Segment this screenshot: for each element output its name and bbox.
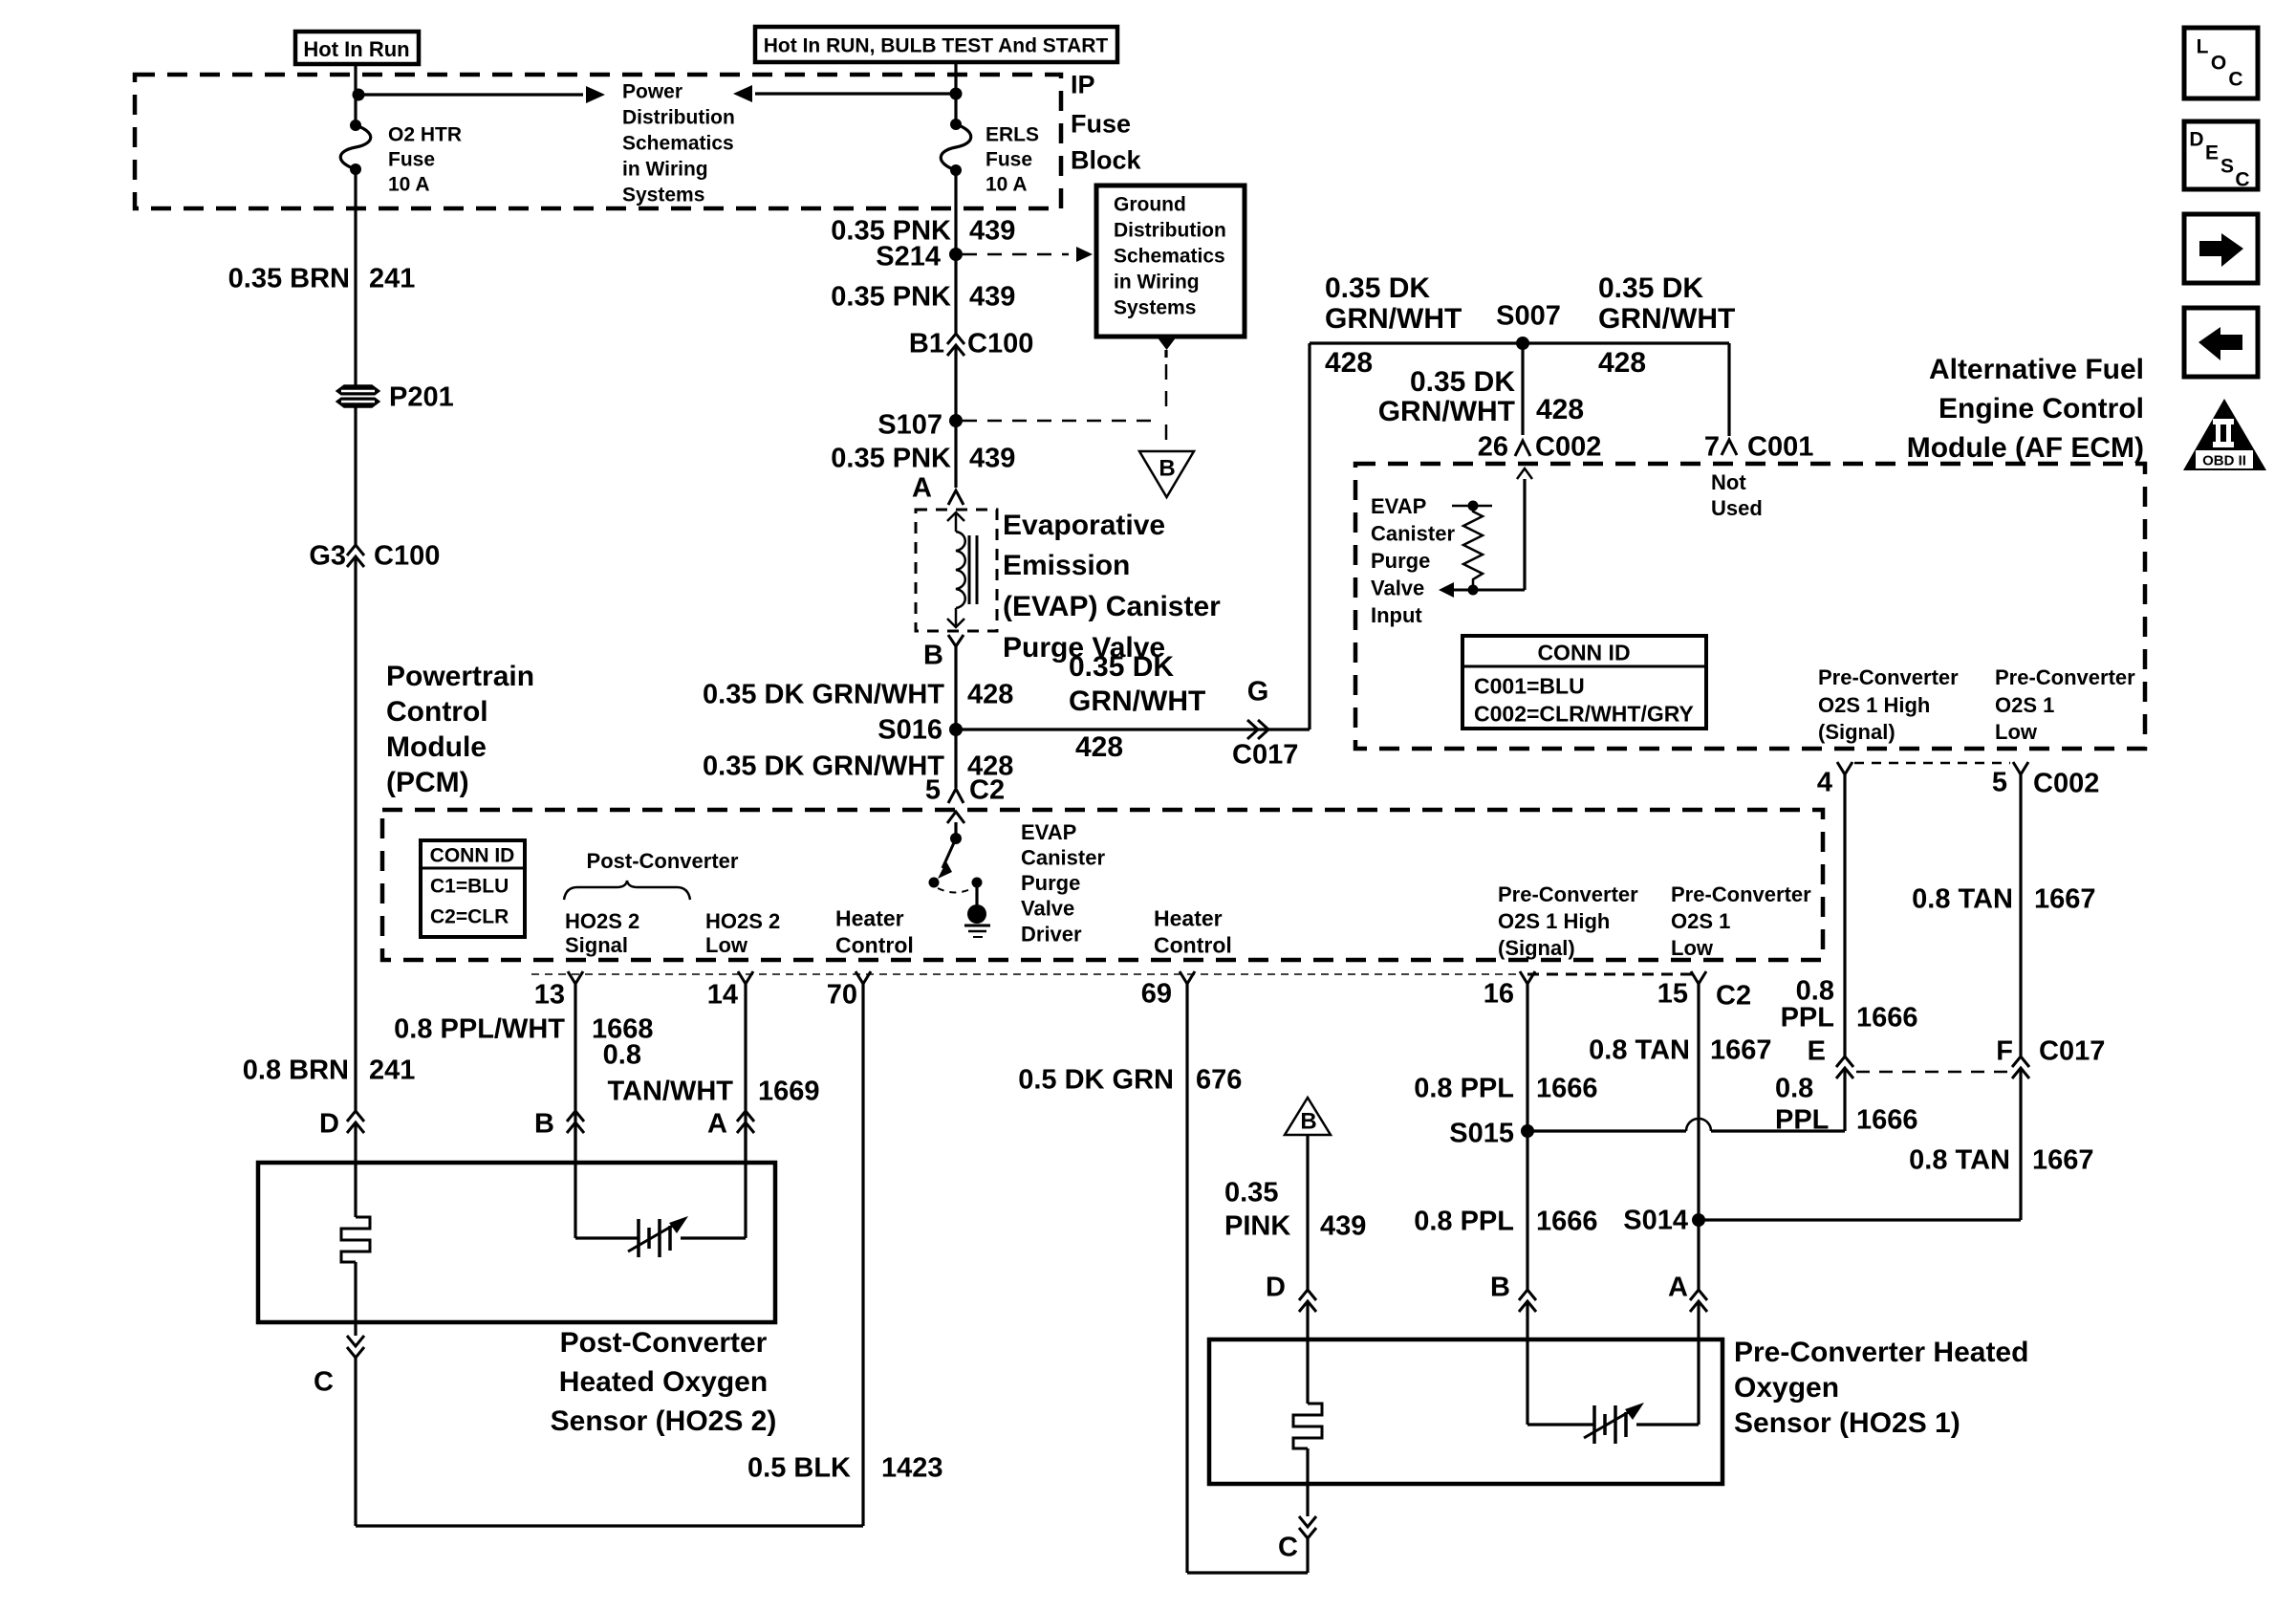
svg-text:7: 7 (1704, 431, 1720, 462)
inline connector chevrons on S016 wire (1247, 720, 1258, 739)
box Ground Distribution Schematics in Wiring Systems (1096, 185, 1245, 337)
svg-text:in Wiring: in Wiring (1114, 272, 1200, 294)
wire pin 15 to HO2S1 A (1697, 984, 1700, 1290)
svg-text:(Signal): (Signal) (1498, 936, 1575, 960)
svg-text:HO2S 2: HO2S 2 (565, 909, 639, 933)
svg-text:10 A: 10 A (388, 174, 430, 196)
svg-text:0.35 DK: 0.35 DK (1069, 651, 1174, 683)
svg-text:Systems: Systems (1114, 297, 1196, 319)
connector C2 face thin dashed line (531, 973, 1522, 975)
ground flag triangle B (1139, 451, 1194, 497)
wire HO2S1 C to pin 69 loop (1306, 1538, 1309, 1573)
svg-text:S: S (2220, 156, 2234, 178)
svg-text:O2S 1 High: O2S 1 High (1498, 909, 1610, 933)
svg-text:GRN/WHT: GRN/WHT (1598, 303, 1735, 335)
svg-text:0.8 PPL/WHT: 0.8 PPL/WHT (394, 1013, 565, 1044)
power label box Hot In RUN BULB TEST And START (755, 27, 1117, 62)
svg-text:S107: S107 (877, 409, 942, 440)
svg-text:Canister: Canister (1371, 521, 1455, 545)
svg-text:E: E (2205, 142, 2219, 164)
icon back arrow box (2184, 308, 2258, 377)
icon LOC box (2184, 28, 2258, 98)
svg-text:10 A: 10 A (986, 174, 1028, 196)
connector G3 C100 pass-through (347, 545, 364, 555)
svg-text:Hot In RUN, BULB TEST And STAR: Hot In RUN, BULB TEST And START (764, 35, 1109, 57)
svg-text:C: C (2228, 69, 2242, 91)
svg-text:0.35 DK GRN/WHT: 0.35 DK GRN/WHT (703, 679, 944, 709)
svg-text:O2S 1: O2S 1 (1671, 909, 1730, 933)
svg-text:C2: C2 (969, 774, 1005, 805)
svg-text:O2S 1 High: O2S 1 High (1818, 693, 1930, 717)
svg-text:O: O (2211, 53, 2226, 75)
svg-text:Pre-Converter Heated: Pre-Converter Heated (1734, 1337, 2028, 1368)
svg-text:0.35 DK GRN/WHT: 0.35 DK GRN/WHT (703, 751, 944, 781)
fuse O2 HTR 10A (350, 120, 361, 131)
svg-text:Post-Converter: Post-Converter (560, 1327, 768, 1359)
svg-text:D: D (319, 1108, 339, 1139)
svg-text:C: C (314, 1366, 334, 1397)
svg-text:5: 5 (1992, 767, 2007, 797)
svg-text:0.35 DK: 0.35 DK (1410, 366, 1515, 398)
icon forward arrow box (2184, 214, 2258, 283)
svg-text:1667: 1667 (1710, 1034, 1772, 1065)
splice S214 (949, 248, 963, 261)
svg-text:Sensor (HO2S 1): Sensor (HO2S 1) (1734, 1407, 1960, 1439)
svg-text:Purge: Purge (1021, 871, 1080, 895)
svg-text:G: G (1247, 676, 1269, 707)
svg-text:1666: 1666 (1536, 1073, 1598, 1103)
svg-text:13: 13 (534, 979, 565, 1010)
svg-text:241: 241 (369, 1055, 415, 1085)
svg-text:Fuse: Fuse (986, 149, 1032, 171)
heater element HO2S1 (1306, 1339, 1309, 1404)
svg-text:Oxygen: Oxygen (1734, 1372, 1839, 1404)
svg-text:C2: C2 (1716, 980, 1751, 1011)
box CONN ID PCM (421, 840, 525, 937)
wire 0.35 BRN 241 upper (354, 169, 357, 386)
svg-text:B: B (1490, 1272, 1510, 1302)
svg-text:C002: C002 (2033, 768, 2099, 798)
svg-text:0.8 PPL: 0.8 PPL (1414, 1073, 1514, 1103)
svg-text:0.5 DK GRN: 0.5 DK GRN (1018, 1064, 1174, 1095)
svg-text:(EVAP) Canister: (EVAP) Canister (1003, 591, 1221, 622)
svg-text:GRN/WHT: GRN/WHT (1378, 396, 1515, 427)
svg-text:439: 439 (969, 215, 1015, 246)
pin 4 C002 (1837, 762, 1852, 774)
svg-text:Signal: Signal (565, 933, 628, 957)
wire O2 HTR feed from Hot In Run (354, 64, 357, 125)
svg-text:14: 14 (707, 979, 738, 1010)
svg-text:C2=CLR: C2=CLR (430, 906, 509, 928)
wire BRN to C100 (354, 407, 357, 545)
pin A HO2S1 chevrons (1690, 1290, 1707, 1300)
wire pin 16 to HO2S1 B (1526, 984, 1528, 1290)
pin C HO2S2 chevrons (347, 1336, 364, 1346)
svg-text:0.8: 0.8 (1775, 1073, 1813, 1103)
svg-text:Pre-Converter: Pre-Converter (1498, 882, 1638, 906)
svg-text:B1: B1 (909, 328, 944, 359)
svg-text:1666: 1666 (1856, 1104, 1918, 1135)
svg-text:439: 439 (1320, 1210, 1366, 1241)
svg-text:0.8 PPL: 0.8 PPL (1414, 1206, 1514, 1236)
icon OBD II triangle (2183, 399, 2266, 470)
svg-text:439: 439 (969, 443, 1015, 473)
arrow up to pin 26 inside AF ECM (1523, 479, 1526, 590)
svg-text:B: B (1159, 456, 1175, 482)
splice S007 (1516, 337, 1529, 350)
svg-text:L: L (2197, 36, 2209, 58)
svg-text:Pre-Converter: Pre-Converter (1818, 665, 1959, 689)
pin 5 C002 (2013, 762, 2028, 774)
svg-text:Control: Control (1154, 932, 1232, 957)
svg-text:0.8: 0.8 (603, 1039, 641, 1070)
svg-text:PPL: PPL (1781, 1002, 1834, 1033)
svg-text:G3: G3 (309, 540, 346, 571)
heater element HO2S2 (354, 1163, 357, 1217)
node junction on O2 HTR feed (353, 89, 365, 101)
svg-text:Input: Input (1371, 603, 1422, 627)
svg-text:EVAP: EVAP (1371, 494, 1426, 518)
svg-text:HO2S 2: HO2S 2 (705, 909, 780, 933)
pin 14 C2 (738, 971, 753, 984)
svg-text:S214: S214 (876, 241, 941, 272)
pin 15 C2 (1691, 971, 1706, 984)
svg-text:Low: Low (705, 933, 748, 957)
svg-text:1666: 1666 (1536, 1206, 1598, 1236)
variable resistor HO2S2 (574, 1163, 576, 1238)
svg-text:0.35 PNK: 0.35 PNK (831, 443, 951, 473)
wire S016 to C017 G (956, 728, 1310, 730)
svg-text:Pre-Converter: Pre-Converter (1995, 665, 2135, 689)
wire pin 69 heater control (1185, 984, 1188, 1573)
svg-text:0.8 BRN: 0.8 BRN (243, 1055, 349, 1085)
variable resistor HO2S1 (1526, 1339, 1528, 1425)
svg-text:D: D (2189, 129, 2203, 151)
svg-text:16: 16 (1484, 978, 1514, 1009)
svg-text:Pre-Converter: Pre-Converter (1671, 882, 1811, 906)
sensor HO2S1 box (1209, 1339, 1722, 1484)
power label box Hot In Run (295, 32, 419, 64)
svg-text:C: C (2235, 169, 2249, 191)
splice S016 (949, 723, 963, 736)
pin B HO2S1 chevrons (1519, 1290, 1536, 1300)
svg-text:GRN/WHT: GRN/WHT (1069, 686, 1205, 717)
splice S014 (1692, 1213, 1705, 1227)
svg-text:Systems: Systems (622, 185, 704, 207)
svg-text:Distribution: Distribution (622, 107, 735, 129)
svg-text:0.35: 0.35 (1224, 1177, 1278, 1208)
svg-text:B: B (534, 1108, 554, 1139)
svg-text:15: 15 (1657, 978, 1688, 1009)
dashed wire to B ground flag (1165, 364, 1168, 418)
svg-text:676: 676 (1196, 1064, 1242, 1095)
svg-text:C: C (1278, 1532, 1298, 1562)
wire B flag to HO2S1 D pin (1306, 1135, 1309, 1290)
svg-text:A: A (707, 1108, 727, 1139)
IP fuse block dashed box (135, 75, 1061, 208)
svg-text:Driver: Driver (1021, 922, 1082, 946)
svg-text:5: 5 (925, 774, 941, 805)
pin 26 C002 AF ECM (1515, 441, 1530, 456)
svg-text:1667: 1667 (2034, 883, 2096, 914)
svg-text:C001: C001 (1747, 431, 1813, 462)
wire pin 13 HO2S2 signal (574, 984, 576, 1163)
svg-text:S007: S007 (1496, 300, 1561, 331)
pin 5 C2 PCM (948, 789, 964, 803)
svg-text:PINK: PINK (1224, 1210, 1290, 1241)
wire pin 4 to E C017 (1843, 774, 1846, 1056)
EVAP valve coil symbol (955, 512, 958, 532)
svg-text:EVAP: EVAP (1021, 820, 1076, 844)
node junction on ERLS feed (950, 88, 963, 100)
svg-text:0.8 TAN: 0.8 TAN (1912, 883, 2013, 914)
wire purge valve input with arrow (1454, 589, 1525, 592)
pin 70 C2 (856, 971, 871, 984)
svg-text:Powertrain: Powertrain (386, 661, 534, 692)
wire HO2S2 C to pin 70 ground loop (354, 1358, 357, 1526)
svg-text:Distribution: Distribution (1114, 220, 1226, 242)
dashed connector face C017 E to F (1856, 1071, 2009, 1074)
svg-text:Hot In Run: Hot In Run (303, 37, 409, 61)
ground symbol purge valve driver (975, 882, 978, 906)
pin A HO2S2 chevrons (737, 1111, 754, 1121)
svg-text:C100: C100 (967, 328, 1033, 359)
wire arrow to Power Distribution Schematics left (755, 92, 956, 95)
svg-text:Power: Power (622, 81, 682, 103)
wire down to pin 7 C001 (1727, 343, 1730, 436)
svg-text:Valve: Valve (1371, 576, 1424, 599)
svg-text:Control: Control (835, 932, 914, 957)
svg-text:1669: 1669 (758, 1076, 820, 1106)
svg-text:Fuse: Fuse (388, 149, 435, 171)
svg-text:26: 26 (1478, 431, 1508, 462)
svg-text:Block: Block (1071, 146, 1142, 175)
wire ERLS feed from Hot In RUN header (954, 62, 957, 124)
svg-text:0.35 DK: 0.35 DK (1598, 272, 1703, 304)
wire pin 5 to F C017 to S014 (2019, 774, 2022, 1056)
svg-text:Purge: Purge (1371, 549, 1430, 573)
wire pin 14 HO2S2 low (744, 984, 747, 1163)
svg-text:OBD II: OBD II (2202, 452, 2246, 468)
svg-text:O2 HTR: O2 HTR (388, 124, 462, 146)
svg-text:C017: C017 (1232, 739, 1298, 770)
wire vertical up to AF ECM feed (1308, 343, 1310, 729)
pin D HO2S2 chevrons (347, 1111, 364, 1121)
EVAP canister purge valve dashed outline (916, 510, 997, 631)
svg-text:Heater: Heater (1154, 905, 1223, 930)
sensor HO2S2 box (258, 1163, 775, 1322)
svg-text:Schematics: Schematics (622, 133, 734, 155)
connector B1 C100 pass-through (947, 334, 964, 344)
svg-text:C001=BLU: C001=BLU (1474, 673, 1585, 698)
EVAP canister purge valve driver switch inside PCM (954, 822, 957, 838)
svg-text:428: 428 (1598, 347, 1646, 379)
svg-text:1666: 1666 (1856, 1002, 1918, 1033)
dashed wire S214 to Ground Distribution (963, 253, 1069, 256)
svg-text:C002=CLR/WHT/GRY: C002=CLR/WHT/GRY (1474, 701, 1694, 726)
dashed wire S107 to ground flag B (963, 420, 1159, 423)
svg-text:C100: C100 (374, 540, 440, 571)
svg-text:Heater: Heater (835, 905, 904, 930)
svg-text:Heated Oxygen: Heated Oxygen (559, 1366, 768, 1398)
module PCM dashed box (382, 810, 1823, 960)
svg-text:D: D (1266, 1272, 1286, 1302)
svg-text:(Signal): (Signal) (1818, 720, 1895, 744)
svg-text:Canister: Canister (1021, 846, 1105, 870)
pin C HO2S1 chevrons (1299, 1516, 1316, 1527)
svg-text:B: B (923, 640, 943, 670)
svg-text:Not: Not (1711, 470, 1746, 494)
svg-text:Alternative Fuel: Alternative Fuel (1929, 354, 2144, 385)
wire 0.8 BRN 241 lower (354, 556, 357, 1111)
svg-text:1423: 1423 (881, 1452, 943, 1483)
svg-text:0.35 BRN: 0.35 BRN (228, 263, 350, 294)
svg-text:1667: 1667 (2032, 1144, 2094, 1175)
svg-text:O2S 1: O2S 1 (1995, 693, 2054, 717)
wire arrow to Power Distribution Schematics (358, 93, 583, 96)
wire S007 down to pin 26 C002 (1521, 343, 1524, 435)
svg-text:439: 439 (969, 281, 1015, 312)
svg-text:241: 241 (369, 263, 415, 294)
svg-text:428: 428 (1075, 731, 1123, 763)
wire S015 to E with hop over pin15 wire (1527, 1129, 1686, 1132)
wire 0.35 PNK 439 S214 to B1 C100 (954, 254, 957, 334)
svg-text:Evaporative: Evaporative (1003, 510, 1165, 541)
splice S015 (1521, 1124, 1534, 1138)
pin 7 C001 AF ECM not used (1722, 440, 1737, 455)
connector F C017 chevrons (2012, 1056, 2029, 1067)
svg-text:Sensor (HO2S 2): Sensor (HO2S 2) (551, 1405, 777, 1437)
svg-text:C017: C017 (2039, 1035, 2105, 1066)
svg-text:428: 428 (1325, 347, 1373, 379)
pin B EVAP purge valve (948, 635, 964, 646)
svg-text:CONN ID: CONN ID (430, 845, 515, 867)
svg-text:B: B (1300, 1109, 1316, 1135)
svg-text:ERLS: ERLS (986, 124, 1039, 146)
pin D HO2S1 chevrons (1299, 1290, 1316, 1300)
connector P201 grommet (336, 385, 379, 397)
svg-text:0.8 TAN: 0.8 TAN (1909, 1144, 2010, 1175)
svg-text:F: F (1996, 1035, 2013, 1066)
resistor EVAP purge valve input (1452, 505, 1492, 508)
svg-text:CONN ID: CONN ID (1537, 640, 1630, 664)
svg-text:Used: Used (1711, 496, 1763, 520)
svg-text:Module: Module (386, 731, 487, 763)
connector C002 pins 4 and 5 dashed face (1854, 762, 2010, 765)
svg-text:A: A (912, 472, 932, 503)
wire 0.35 DK GRN/WHT 428 valve to S016 (954, 646, 957, 788)
svg-text:C1=BLU: C1=BLU (430, 876, 509, 898)
pin B HO2S2 chevrons (567, 1111, 584, 1121)
svg-text:in Wiring: in Wiring (622, 159, 708, 181)
module AF ECM dashed box (1355, 464, 2145, 749)
ground flag triangle B at HO2S1 (1285, 1098, 1331, 1135)
svg-text:Valve: Valve (1021, 897, 1074, 921)
svg-text:TAN/WHT: TAN/WHT (607, 1076, 733, 1106)
svg-text:428: 428 (967, 679, 1013, 709)
wire S014 to F (1699, 1218, 2021, 1221)
wire ERLS 0.35 PNK 439 to S214 (954, 170, 957, 254)
svg-text:Engine Control: Engine Control (1939, 393, 2144, 425)
svg-text:Emission: Emission (1003, 550, 1130, 581)
svg-text:4: 4 (1817, 767, 1832, 797)
connector E C017 chevrons (1836, 1056, 1853, 1067)
icon DESC box (2184, 121, 2258, 189)
svg-text:0.5 BLK: 0.5 BLK (747, 1452, 851, 1483)
svg-text:0.35 DK: 0.35 DK (1325, 272, 1430, 304)
fuse ERLS 10A (950, 119, 962, 130)
svg-text:C002: C002 (1535, 431, 1601, 462)
svg-text:428: 428 (1536, 394, 1584, 425)
splice S107 (949, 414, 963, 427)
svg-text:P201: P201 (389, 381, 454, 412)
ground ref triangle below box (1157, 337, 1177, 350)
svg-text:Low: Low (1995, 720, 2038, 744)
svg-text:Module (AF ECM): Module (AF ECM) (1907, 432, 2144, 464)
svg-text:69: 69 (1141, 978, 1172, 1009)
svg-text:Ground: Ground (1114, 194, 1186, 216)
pin 16 C2 (1520, 971, 1535, 984)
svg-text:Fuse: Fuse (1071, 110, 1131, 139)
svg-text:0.35 PNK: 0.35 PNK (831, 281, 951, 312)
svg-text:S015: S015 (1449, 1118, 1514, 1148)
svg-text:0.8 TAN: 0.8 TAN (1589, 1034, 1690, 1065)
svg-text:Post-Converter: Post-Converter (587, 849, 739, 873)
pin 13 C2 (568, 971, 583, 984)
svg-text:S016: S016 (877, 714, 942, 745)
svg-text:S014: S014 (1623, 1205, 1688, 1235)
svg-text:E: E (1808, 1035, 1826, 1066)
svg-text:IP: IP (1071, 71, 1095, 99)
box CONN ID AF ECM (1462, 636, 1706, 729)
wire top 428 run to S007 and C001 (1310, 341, 1729, 344)
svg-text:(PCM): (PCM) (386, 767, 469, 798)
svg-text:Schematics: Schematics (1114, 246, 1225, 268)
svg-text:Control: Control (386, 696, 488, 728)
pin 69 C2 (1180, 971, 1195, 984)
svg-text:Low: Low (1671, 936, 1714, 960)
svg-text:70: 70 (827, 979, 857, 1010)
svg-text:A: A (1668, 1272, 1688, 1302)
svg-text:GRN/WHT: GRN/WHT (1325, 303, 1462, 335)
